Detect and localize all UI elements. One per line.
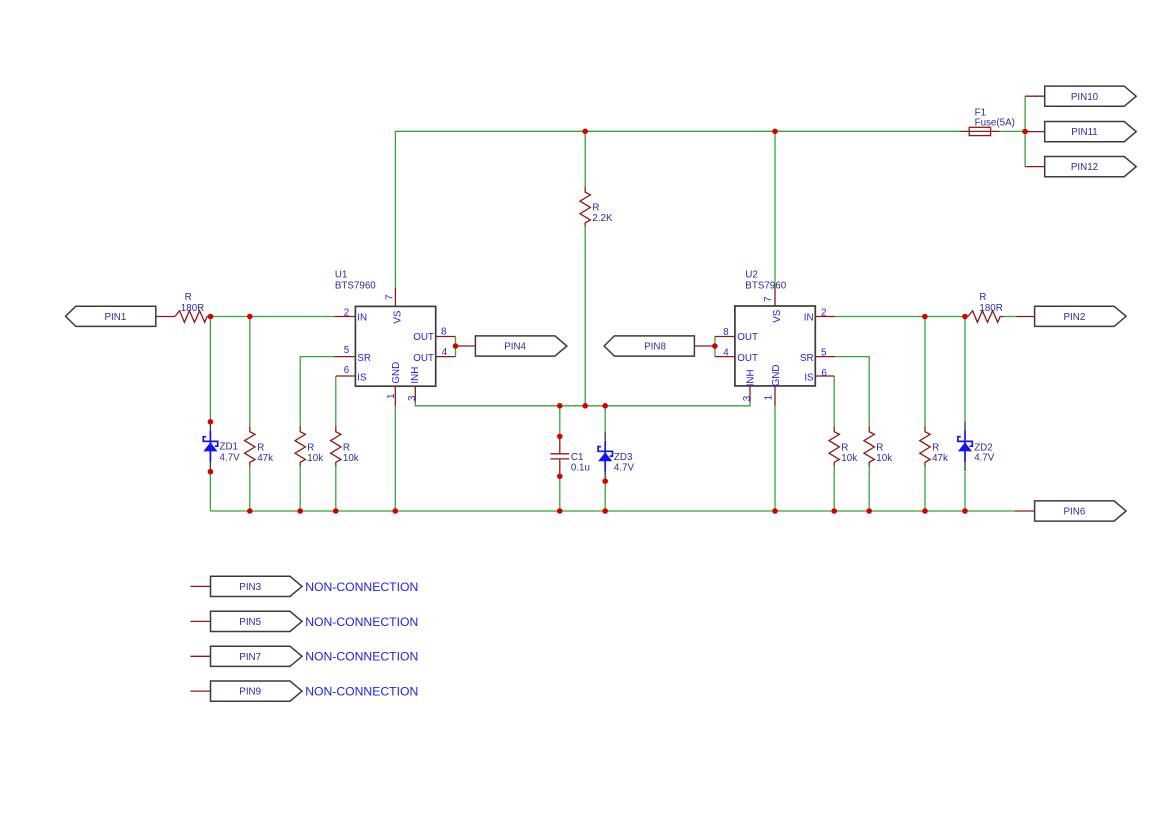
svg-text:PIN9: PIN9 [239, 687, 261, 698]
svg-text:2.2K: 2.2K [592, 213, 613, 224]
pin 4 stub U1 [436, 356, 456, 358]
pin 5 stub U2 [815, 356, 835, 358]
svg-text:IS: IS [357, 373, 367, 384]
svg-text:4: 4 [723, 347, 729, 358]
connector PIN9 [211, 681, 303, 701]
svg-text:Fuse(5A): Fuse(5A) [975, 118, 1015, 129]
svg-text:R: R [307, 443, 314, 454]
op-amp U1 body [355, 306, 435, 386]
connector PIN6 [1035, 501, 1127, 521]
svg-text:NON-CONNECTION: NON-CONNECTION [305, 580, 418, 594]
svg-text:IN: IN [804, 312, 814, 323]
svg-text:ZD3: ZD3 [614, 452, 633, 463]
svg-text:IS: IS [804, 373, 814, 384]
pin 8 stub U2 [715, 336, 735, 338]
svg-text:PIN4: PIN4 [504, 342, 526, 353]
wire stub to PIN12 [1025, 166, 1045, 168]
resistor R 47k left [245, 426, 255, 466]
zener diode ZD3 [598, 432, 612, 481]
wire R10k d column lower [833, 466, 835, 511]
svg-text:PIN8: PIN8 [644, 342, 666, 353]
pin 6 stub U2 [815, 375, 834, 377]
svg-text:47k: 47k [257, 453, 273, 464]
wire ZD2 column lower [964, 472, 966, 512]
svg-text:PIN2: PIN2 [1064, 312, 1086, 323]
svg-text:7: 7 [384, 295, 395, 300]
wire U2 IS column [833, 376, 835, 426]
connector PIN3 [211, 576, 303, 596]
wire ZD1 column [209, 317, 211, 422]
svg-text:VS: VS [392, 310, 403, 324]
connector PIN7 [211, 646, 303, 666]
wire lead from PIN8 [695, 345, 715, 347]
wire U2 GND column [774, 406, 776, 511]
svg-text:8: 8 [441, 326, 447, 337]
svg-text:10k: 10k [876, 453, 892, 464]
connector PIN4 [475, 336, 567, 356]
wire R2.2K column lower [584, 227, 586, 406]
svg-text:BTS7960: BTS7960 [745, 280, 786, 291]
connector PIN1 [66, 306, 156, 326]
svg-text:R: R [876, 443, 883, 454]
wire vertical bus to PIN10-12 [1024, 96, 1026, 166]
wire R2.2K column [584, 131, 586, 187]
svg-text:47k: 47k [932, 453, 948, 464]
svg-text:R: R [343, 443, 350, 454]
svg-text:R: R [932, 443, 939, 454]
svg-text:4.7V: 4.7V [974, 453, 995, 464]
svg-text:NON-CONNECTION: NON-CONNECTION [305, 615, 418, 629]
pin numbers U2 [723, 297, 827, 402]
svg-text:IN: IN [357, 312, 367, 323]
svg-text:R: R [979, 292, 986, 303]
svg-text:PIN11: PIN11 [1071, 127, 1098, 138]
svg-text:5: 5 [821, 347, 827, 358]
svg-text:PIN10: PIN10 [1071, 92, 1099, 103]
wire U2 OUT bridge [714, 337, 716, 357]
svg-text:ZD1: ZD1 [220, 442, 239, 453]
pin 7 stub U2 [774, 286, 776, 306]
svg-text:R: R [185, 292, 192, 303]
wire C1 column lower [559, 476, 561, 511]
wire U1 OUT bridge [455, 337, 457, 357]
svg-text:NON-CONNECTION: NON-CONNECTION [305, 650, 418, 664]
resistor R 10k b [331, 426, 341, 466]
svg-text:180R: 180R [181, 303, 204, 314]
svg-text:OUT: OUT [413, 353, 434, 364]
svg-text:3: 3 [407, 395, 418, 401]
svg-text:4.7V: 4.7V [614, 462, 635, 473]
wire INH net U1 to U2 [415, 402, 750, 406]
pin 2 stub U2 [815, 316, 835, 318]
svg-text:OUT: OUT [737, 353, 758, 364]
wire R10k b column lower [335, 466, 337, 511]
op-amp U2 body [735, 306, 815, 386]
wire U1 GND column [394, 406, 396, 511]
svg-text:U2: U2 [745, 270, 758, 281]
svg-text:4: 4 [442, 347, 448, 358]
svg-text:VS: VS [772, 309, 783, 323]
svg-text:2: 2 [821, 307, 826, 318]
stub PIN3 [190, 585, 210, 587]
svg-text:C1: C1 [571, 452, 584, 463]
pin 6 stub U1 [336, 375, 356, 377]
svg-text:8: 8 [723, 327, 729, 338]
pin 3 stub U2 [749, 386, 751, 402]
wire ZD1 column lower [209, 472, 211, 511]
wire ZD2 column [964, 317, 966, 422]
wire R10k c column lower [868, 466, 870, 511]
svg-text:INH: INH [410, 367, 421, 384]
svg-text:PIN6: PIN6 [1064, 507, 1086, 518]
pin 8 stub U1 [436, 336, 456, 338]
svg-text:U1: U1 [335, 270, 348, 281]
connector PIN8 [604, 336, 694, 356]
svg-text:2: 2 [344, 307, 349, 318]
svg-text:PIN5: PIN5 [239, 617, 261, 628]
wire stub to PIN10 [1025, 95, 1045, 97]
svg-text:NON-CONNECTION: NON-CONNECTION [305, 685, 418, 699]
wire after R180R right [1004, 316, 1017, 318]
svg-text:1: 1 [763, 395, 774, 400]
svg-text:10k: 10k [841, 453, 857, 464]
wire R47k right column [924, 317, 926, 427]
wire top rail right of fuse [999, 130, 1025, 132]
pin 5 stub U1 [334, 356, 355, 358]
svg-text:INH: INH [746, 369, 757, 386]
svg-text:OUT: OUT [413, 332, 434, 343]
connector PIN5 [211, 611, 303, 631]
wire R47k left column [249, 317, 251, 427]
wire PIN1 to IN [211, 316, 335, 318]
wire stub to PIN11 [1025, 131, 1045, 133]
wire C1 column [559, 406, 561, 437]
zener diode ZD2 [958, 422, 972, 471]
pin 4 stub U2 [715, 356, 735, 358]
resistor R 2.2K [580, 187, 590, 227]
wire ZD3 column lower [604, 481, 606, 511]
connector PIN11 [1045, 122, 1137, 142]
svg-text:BTS7960: BTS7960 [335, 280, 376, 291]
connector PIN2 [1035, 306, 1127, 326]
wire R10k a column lower [299, 466, 301, 511]
svg-text:4.7V: 4.7V [220, 452, 241, 463]
capacitor C1 [550, 436, 569, 476]
pin numbers U1 [344, 295, 448, 401]
wire U2 SR run [835, 357, 869, 427]
resistor R 10k a [295, 426, 305, 466]
wire bottom rail lead to PIN6 [1014, 510, 1034, 512]
wire U2 IN run [835, 316, 968, 318]
pin names U1 [357, 310, 434, 384]
wire U1 IS column [335, 376, 337, 426]
svg-text:5: 5 [344, 345, 350, 356]
zener diode ZD1 [203, 422, 217, 471]
svg-text:10k: 10k [307, 453, 323, 464]
pin 7 stub U1 [394, 287, 396, 306]
svg-text:6: 6 [344, 365, 350, 376]
svg-text:PIN3: PIN3 [239, 582, 261, 593]
resistor R 10k d [864, 426, 874, 466]
svg-text:R: R [257, 443, 264, 454]
wire U2 VS riser [774, 131, 776, 286]
connector PIN12 [1045, 157, 1137, 177]
connector PIN10 [1045, 86, 1137, 106]
pin names U2 [737, 309, 814, 386]
wire top rail [395, 131, 960, 287]
resistor R 180R left [175, 311, 211, 323]
pin 3 stub U1 [414, 386, 416, 402]
svg-text:GND: GND [771, 365, 782, 387]
resistor R 10k c [829, 426, 839, 466]
wire bottom rail [210, 510, 1014, 512]
wire U1 SR run [300, 357, 334, 427]
svg-text:0.1u: 0.1u [571, 463, 590, 474]
wire lead to PIN2 [1016, 316, 1034, 318]
stub PIN7 [190, 655, 210, 657]
svg-text:PIN1: PIN1 [105, 312, 127, 323]
pin 1 stub U1 [394, 386, 396, 406]
svg-text:SR: SR [357, 353, 371, 364]
fuse F1 [961, 127, 1000, 135]
svg-text:7: 7 [763, 297, 774, 302]
wire R47k left column lower [249, 466, 251, 511]
wire R47k right column lower [924, 466, 926, 511]
svg-text:1: 1 [386, 394, 397, 399]
svg-text:R: R [841, 443, 848, 454]
svg-text:3: 3 [742, 395, 753, 401]
stub PIN9 [190, 690, 210, 692]
svg-text:10k: 10k [343, 453, 359, 464]
svg-text:6: 6 [821, 368, 827, 379]
svg-text:GND: GND [391, 362, 402, 384]
resistor R1 180R left lead [155, 316, 175, 318]
svg-text:PIN7: PIN7 [239, 652, 261, 663]
stub PIN5 [190, 620, 210, 622]
svg-text:SR: SR [800, 353, 814, 364]
svg-text:180R: 180R [979, 303, 1002, 314]
pin 1 stub U2 [774, 386, 776, 406]
resistor R 47k right [920, 426, 930, 466]
wire lead to PIN4 [456, 345, 476, 347]
resistor R 180R right [968, 311, 1004, 323]
svg-text:OUT: OUT [737, 332, 758, 343]
svg-text:PIN12: PIN12 [1071, 162, 1098, 173]
pin 2 stub U1 [334, 316, 355, 318]
wire ZD3 column [604, 406, 606, 432]
